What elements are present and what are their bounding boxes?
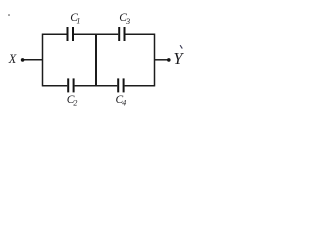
svg-text:X: X [8, 52, 17, 66]
svg-text:4: 4 [122, 99, 126, 108]
svg-text:3: 3 [125, 17, 130, 26]
svg-text:2: 2 [73, 99, 77, 108]
svg-text:1: 1 [76, 17, 80, 26]
